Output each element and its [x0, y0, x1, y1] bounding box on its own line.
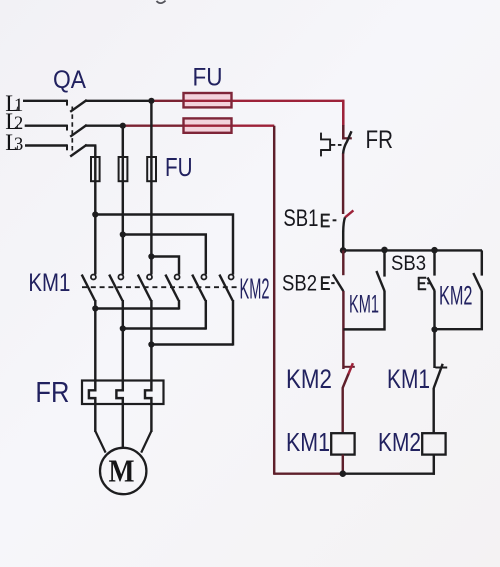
svg-text:QA: QA: [53, 66, 86, 94]
svg-text:KM1: KM1: [349, 290, 379, 318]
svg-text:FU: FU: [165, 152, 193, 182]
svg-text:SB2: SB2: [282, 270, 317, 295]
svg-text:FR: FR: [35, 377, 69, 409]
svg-text:KM1: KM1: [286, 427, 330, 457]
svg-text:KM1: KM1: [28, 269, 70, 297]
svg-text:KM2: KM2: [240, 274, 270, 306]
svg-text:KM2: KM2: [439, 280, 473, 310]
svg-text:SB3: SB3: [391, 252, 426, 275]
svg-text:KM2: KM2: [378, 427, 421, 457]
svg-text:FR: FR: [366, 126, 394, 154]
svg-text:KM1: KM1: [387, 364, 430, 394]
svg-text:M: M: [109, 453, 135, 489]
svg-text:3: 3: [14, 135, 23, 155]
svg-text:SB1: SB1: [283, 205, 318, 232]
svg-text:FU: FU: [193, 63, 223, 91]
svg-text:KM2: KM2: [286, 364, 332, 394]
